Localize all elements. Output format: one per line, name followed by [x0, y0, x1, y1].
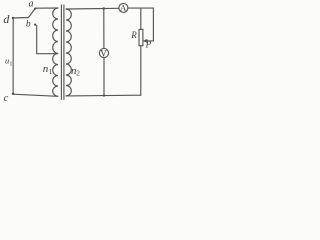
svg-text:1: 1: [49, 68, 53, 76]
transformer primary winding n1 (8 bumps, bulge left): [53, 8, 58, 96]
svg-text:b: b: [26, 19, 31, 29]
switch blade (d to contact a): [29, 8, 36, 17]
wire: voltmeter branch lower: [103, 58, 105, 96]
wire: resistor bottom lead down to bottom wire: [140, 46, 142, 95]
svg-text:d: d: [3, 12, 10, 26]
wire: bottom right (secondary bottom to resistor bottom): [66, 94, 141, 97]
svg-text:R: R: [130, 30, 137, 40]
wire: d node to switch pivot: [13, 17, 29, 20]
transformer secondary winding n2 (8 bumps, bulge right): [66, 9, 71, 96]
wire: secondary top to ammeter: [66, 7, 119, 10]
contact dot a: [34, 8, 36, 10]
node dot d: [12, 17, 14, 19]
svg-text:c: c: [4, 93, 9, 104]
wire: ammeter to top right corner, down to slider: [128, 8, 153, 41]
transformer core (two vertical lines): [60, 5, 62, 100]
ammeter A circle: [119, 3, 128, 12]
svg-text:V: V: [100, 48, 107, 58]
slider arrow P (points left into resistor): [144, 40, 147, 43]
wire: voltmeter branch upper: [103, 9, 105, 49]
svg-text:a: a: [29, 0, 34, 10]
junction dot top (voltmeter tap): [103, 7, 105, 9]
resistor R box: [139, 29, 143, 45]
node dot c: [12, 93, 14, 95]
voltmeter V circle: [99, 48, 108, 57]
wire: tap b down and right to primary tap: [37, 26, 58, 54]
svg-text:2: 2: [76, 70, 80, 78]
svg-text:A: A: [120, 3, 127, 13]
wire: bottom left c to primary bottom: [13, 94, 58, 96]
wire: left vertical d to c: [12, 18, 14, 94]
junction dot bottom (voltmeter tap): [103, 95, 105, 97]
background: [0, 0, 160, 104]
wire: resistor top lead from top wire: [140, 8, 142, 29]
svg-text:P: P: [145, 40, 152, 50]
svg-text:1: 1: [9, 61, 12, 67]
contact dot b: [34, 24, 36, 26]
wire: contact a to primary top: [36, 7, 59, 9]
